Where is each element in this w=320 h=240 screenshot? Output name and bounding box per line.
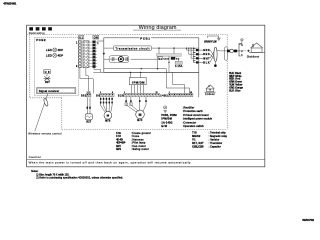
svg-text:M/S: M/S: [105, 121, 110, 123]
svg-text:3W04702: 3W04702: [302, 218, 314, 222]
svg-text:14D2: 14D2: [160, 94, 168, 97]
svg-text:C102, C103: C102, C103: [192, 146, 204, 149]
svg-text:PCB2: PCB2: [36, 38, 46, 42]
svg-text:E/M: E/M: [161, 125, 166, 128]
svg-text:R1T: R1T: [45, 82, 50, 84]
svg-text::Protective earth: :Protective earth: [183, 110, 204, 113]
svg-text:1: 1: [87, 92, 88, 94]
svg-text:Signal receiver: Signal receiver: [39, 89, 59, 93]
svg-text:R2T: R2T: [86, 122, 91, 124]
svg-text:LED: LED: [46, 48, 52, 52]
svg-text:BLK: BLK: [203, 62, 210, 64]
svg-text:S32: S32: [81, 94, 87, 97]
svg-text:M: M: [139, 113, 142, 117]
svg-text:Outdoor: Outdoor: [247, 56, 259, 59]
svg-text:IPM/DM: IPM/DM: [132, 81, 145, 85]
svg-text:GRN: GRN: [203, 50, 210, 52]
svg-text:: Varistor: : Varistor: [209, 138, 220, 141]
svg-text:IPM/DM: IPM/DM: [161, 118, 171, 121]
svg-text::Printed circuit board: :Printed circuit board: [183, 114, 209, 117]
svg-text:Transmission circuit: Transmission circuit: [115, 46, 149, 50]
svg-text:ON: ON: [94, 37, 98, 40]
svg-text:2) Refer to purchasing specifi: 2) Refer to purchasing specification 4D3…: [36, 177, 123, 180]
svg-text:4TW25-861: 4TW25-861: [3, 2, 16, 6]
svg-text:Indoor: Indoor: [205, 93, 214, 96]
svg-text::Intelligent power module: :Intelligent power module: [183, 118, 213, 121]
svg-text:Wireless remote control: Wireless remote control: [28, 132, 62, 136]
svg-text:M/S: M/S: [116, 148, 121, 151]
svg-text:4DP: 4DP: [58, 48, 64, 52]
svg-text:WHT: WHT: [203, 58, 210, 60]
svg-text:BLU: BLU: [229, 90, 234, 93]
svg-text:: Capacitor: : Capacitor: [209, 146, 221, 149]
svg-text:PCB1: PCB1: [140, 36, 150, 40]
svg-text:PCB1, PCB2: PCB1, PCB2: [161, 114, 177, 117]
svg-text:LED: LED: [46, 54, 52, 58]
svg-text:U1: U1: [79, 37, 83, 40]
svg-text:M/F: M/F: [137, 120, 143, 122]
svg-text:U8: U8: [45, 70, 50, 74]
svg-text::Rectifier: :Rectifier: [183, 106, 195, 109]
svg-text::Operation switch: :Operation switch: [183, 125, 205, 128]
svg-text::Blue: :Blue: [235, 90, 242, 93]
svg-text:GRN/YLW: GRN/YLW: [204, 41, 217, 44]
svg-text:2: 2: [89, 92, 90, 94]
svg-text:3.15A: 3.15A: [175, 65, 183, 68]
svg-text:Caution: Caution: [29, 155, 42, 159]
svg-text:When the main power is turned: When the main power is turned off and th…: [29, 160, 192, 164]
svg-text:RED: RED: [203, 54, 210, 56]
svg-text::Swing motor: :Swing motor: [132, 148, 150, 151]
svg-text:4DP: 4DP: [58, 54, 64, 58]
svg-text:S20: S20: [118, 94, 124, 97]
